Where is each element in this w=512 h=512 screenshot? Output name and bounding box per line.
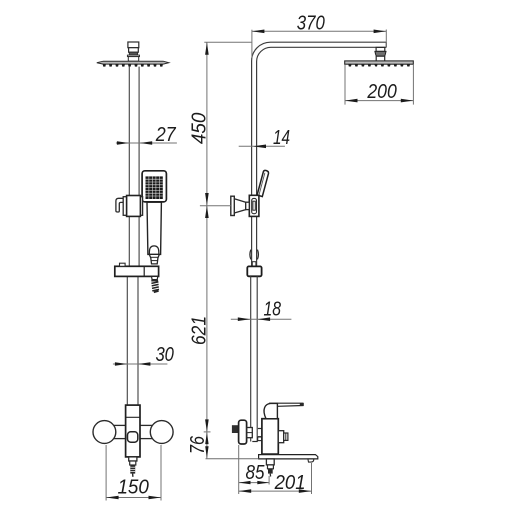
spout tip side <box>308 459 314 462</box>
diverter button front <box>128 432 138 442</box>
mixer side: diverter knob <box>278 431 283 443</box>
wire shower arm and upper pipe side (inner) <box>257 47 387 266</box>
dimension 201 <box>239 463 312 494</box>
mixer side: outlet stack <box>266 459 274 465</box>
svg-text:150: 150 <box>117 476 149 499</box>
dimension 18 <box>231 318 292 320</box>
mixer side: wall stub <box>232 425 239 433</box>
mixer collar front <box>126 405 140 457</box>
mixer side: pipe lower end cap <box>252 441 257 443</box>
wire shower arm and upper pipe side (outer) <box>252 42 387 266</box>
svg-text:450: 450 <box>187 112 210 144</box>
mixer cross bar front <box>106 425 160 438</box>
wire lower pipe side <box>251 276 258 441</box>
nozzle row front <box>103 64 163 67</box>
slider bar front <box>115 266 159 276</box>
mixer left escutcheon circle <box>93 421 116 444</box>
mixer side: connector to body <box>258 428 262 430</box>
coupling box side <box>247 266 261 276</box>
dimension 27 <box>116 142 177 144</box>
svg-text:370: 370 <box>297 12 325 35</box>
mixer side: shelf spout <box>259 455 318 459</box>
svg-text:621: 621 <box>187 316 210 345</box>
hose connector nut front <box>149 254 159 264</box>
holder box side <box>249 195 259 216</box>
ball joint side <box>376 47 385 51</box>
dimension 30 <box>113 363 167 365</box>
arm end cap <box>385 42 387 47</box>
svg-text:200: 200 <box>366 80 397 103</box>
hand shower handle front <box>147 202 161 254</box>
hand shower spray grid <box>146 176 163 199</box>
dimension 450 <box>204 42 251 205</box>
svg-text:85: 85 <box>246 461 265 484</box>
wire lower column pipe front <box>127 276 138 405</box>
wire upper column pipe front <box>129 67 139 267</box>
svg-text:76: 76 <box>186 436 209 454</box>
dimension 76 <box>206 432 208 459</box>
holder left flange front <box>123 197 127 216</box>
holder body front <box>127 196 141 217</box>
svg-text:30: 30 <box>155 343 174 366</box>
holder lever front <box>116 198 123 212</box>
svg-text:27: 27 <box>155 123 177 146</box>
hand shower head front <box>142 171 166 202</box>
hand shower handle dome arc <box>149 246 158 255</box>
dimension 150 <box>106 445 161 501</box>
dimension 621 <box>206 206 208 432</box>
mixer outlet stack front <box>129 457 137 461</box>
holder knob side <box>234 199 245 213</box>
mixer side: lever <box>269 403 303 406</box>
slider top tab front <box>120 263 126 266</box>
rain shower head plate side <box>345 61 414 64</box>
svg-text:201: 201 <box>274 471 306 494</box>
holder right flange front <box>140 197 142 216</box>
dimension 370 <box>252 30 386 59</box>
dimension 200 <box>345 65 413 105</box>
hose spring end front <box>152 276 158 279</box>
mixer body front <box>126 416 140 418</box>
pipe neck above coupling side <box>252 262 256 267</box>
mixer side: escutcheon <box>239 420 247 444</box>
mixer side: hex nut <box>247 428 253 438</box>
dimension 14 <box>239 145 285 147</box>
svg-text:18: 18 <box>264 298 282 321</box>
pipe clip arcs side <box>250 250 251 260</box>
svg-text:14: 14 <box>273 126 290 149</box>
mixer side: body <box>262 419 278 454</box>
hand shower handle side <box>257 170 268 196</box>
nozzle row side <box>348 64 410 66</box>
dimension 85 <box>239 445 269 494</box>
mixer right escutcheon circle <box>150 421 173 444</box>
top connector stack front <box>127 42 139 61</box>
rain shower head plate front <box>97 61 169 64</box>
